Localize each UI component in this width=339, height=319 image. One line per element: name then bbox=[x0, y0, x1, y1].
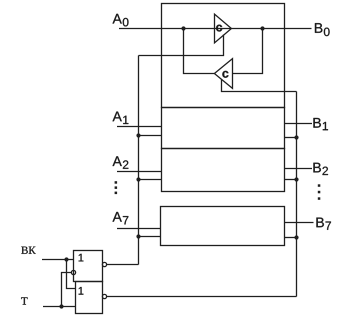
wire A-side control bus vertical bbox=[138, 56, 140, 265]
gate D1.2 OR-gate box bbox=[76, 282, 103, 314]
inversion bubble on D1.1 lower input bbox=[71, 270, 75, 274]
wire A7 control branch bbox=[139, 236, 161, 238]
wire T branch up to D1.1 inverted input bbox=[62, 273, 72, 307]
bit7 cell box U8 bbox=[161, 207, 285, 246]
pin label B2 bbox=[313, 163, 328, 175]
wire control input of top buffer bbox=[139, 35, 224, 56]
wire B-side control bus vertical bbox=[296, 92, 298, 297]
wire from A0 node down to bottom buffer output bbox=[184, 29, 215, 74]
wire B1 control branch bbox=[285, 137, 297, 139]
wire B7 data line bbox=[285, 222, 314, 224]
node junction B1 control bbox=[294, 135, 298, 139]
wire BK branch down to D1.2 input bbox=[67, 260, 76, 289]
label 1 in gate D1.1 bbox=[79, 254, 84, 262]
ellipsis left dots bbox=[115, 181, 118, 184]
wire A1 data line bbox=[117, 126, 162, 128]
wire A7 data line bbox=[117, 228, 161, 230]
wire A0-B0 data line bbox=[119, 28, 312, 30]
pin label BK bbox=[21, 247, 35, 254]
node junction on A0 line left bbox=[181, 26, 185, 30]
label C in top buffer bbox=[216, 25, 222, 32]
pin label B7 bbox=[316, 218, 331, 230]
bit2 cell box U3 bbox=[162, 149, 285, 192]
wire A2 control branch bbox=[139, 179, 162, 181]
wire T input line bbox=[43, 306, 76, 308]
wire B1 data line bbox=[285, 123, 313, 125]
wire B2 control branch bbox=[285, 179, 297, 181]
bit0 cell box U1 bbox=[162, 4, 285, 108]
wire D1.2 output to B-side bus bbox=[107, 296, 297, 298]
pin label A0 bbox=[113, 14, 129, 27]
node junction B7 control bbox=[294, 235, 298, 239]
bit1 cell box U2 bbox=[162, 108, 285, 149]
wire control input of bottom buffer bbox=[222, 80, 297, 92]
wire B7 control branch bbox=[285, 237, 297, 239]
ellipsis right dots bbox=[318, 184, 321, 187]
label C in bottom buffer bbox=[222, 71, 228, 78]
buffer DD1 A-to-B tri-state triangle bbox=[215, 14, 232, 43]
pin label T bbox=[21, 297, 27, 304]
pin label B0 bbox=[315, 23, 330, 36]
label 1 in gate D1.2 bbox=[79, 287, 84, 295]
node junction on A0 line right bbox=[260, 26, 264, 30]
wire A2 data line bbox=[117, 171, 162, 173]
wire D1.1 output to A-side bus bbox=[107, 264, 139, 266]
wire A1 control branch bbox=[139, 135, 162, 137]
wire BK input line bbox=[42, 259, 74, 261]
inversion bubble on D1.1 output bbox=[102, 262, 106, 266]
node junction BK branch bbox=[64, 257, 68, 261]
pin label A1 bbox=[113, 112, 129, 124]
node junction A7 control bbox=[136, 234, 140, 238]
pin label B1 bbox=[313, 118, 328, 130]
wire from B0 node down to bottom buffer input bbox=[233, 29, 263, 74]
buffer DD2 B-to-A tri-state triangle bbox=[214, 59, 232, 89]
wire B2 data line bbox=[285, 168, 313, 170]
gate D1.1 OR-gate box bbox=[74, 251, 103, 282]
pin label A7 bbox=[113, 212, 129, 224]
node junction A1 control bbox=[136, 133, 140, 137]
node junction A2 control bbox=[136, 177, 140, 181]
pin label A2 bbox=[113, 156, 129, 168]
node junction B2 control bbox=[294, 177, 298, 181]
inversion bubble on D1.2 output bbox=[102, 294, 106, 298]
node junction T branch bbox=[59, 304, 63, 308]
